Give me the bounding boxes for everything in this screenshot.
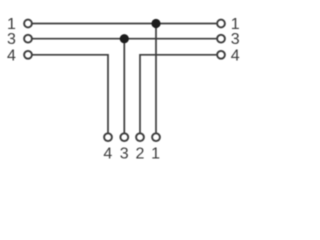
svg-text:2: 2: [136, 146, 145, 163]
svg-text:3: 3: [231, 31, 240, 48]
svg-text:3: 3: [120, 146, 129, 163]
svg-text:1: 1: [151, 146, 160, 163]
svg-text:4: 4: [231, 47, 240, 64]
svg-text:4: 4: [103, 146, 112, 163]
svg-text:4: 4: [7, 47, 16, 64]
svg-text:3: 3: [7, 31, 16, 48]
